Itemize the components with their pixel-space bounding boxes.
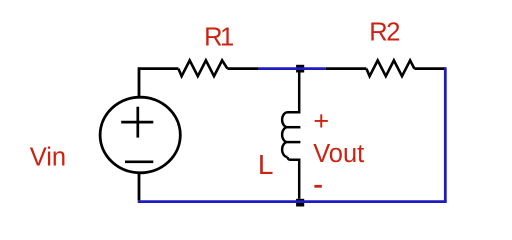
svg-text:+: + [313, 106, 329, 136]
svg-text:L: L [258, 149, 274, 180]
svg-text:Vin: Vin [30, 144, 66, 172]
svg-text:R2: R2 [369, 19, 400, 47]
svg-text:R1: R1 [204, 23, 234, 51]
svg-text:Vout: Vout [313, 140, 364, 168]
